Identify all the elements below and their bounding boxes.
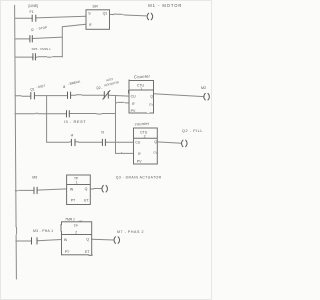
svg-text:M7 - PHAS 2: M7 - PHAS 2 bbox=[117, 230, 144, 234]
svg-text:- BREAK: - BREAK bbox=[67, 79, 81, 86]
svg-text:PT: PT bbox=[65, 250, 70, 254]
svg-text:Q: Q bbox=[85, 187, 88, 191]
svg-text:Counter: Counter bbox=[134, 74, 151, 80]
svg-text:PV: PV bbox=[131, 109, 136, 113]
svg-text:1: 1 bbox=[140, 87, 142, 91]
svg-text:ET: ET bbox=[85, 250, 90, 254]
svg-text:IN: IN bbox=[70, 188, 74, 192]
svg-text:Q: Q bbox=[150, 94, 153, 98]
svg-text:2: 2 bbox=[75, 231, 77, 235]
svg-text:I4: I4 bbox=[71, 133, 74, 137]
svg-text:F1: F1 bbox=[30, 10, 34, 14]
svg-text:Q3 - DRAIN ACTUATOR: Q3 - DRAIN ACTUATOR bbox=[116, 176, 162, 180]
svg-text:R: R bbox=[132, 102, 135, 106]
svg-text:TP: TP bbox=[74, 224, 79, 228]
svg-text:M9: M9 bbox=[32, 176, 37, 180]
svg-text:PV: PV bbox=[137, 159, 142, 163]
svg-text:I2: I2 bbox=[31, 28, 34, 32]
svg-text:M1 - MOTOR: M1 - MOTOR bbox=[148, 3, 182, 8]
svg-text:I4: I4 bbox=[63, 85, 66, 89]
svg-text:M2: M2 bbox=[201, 86, 206, 90]
svg-text:I9: I9 bbox=[101, 130, 104, 134]
svg-text:R: R bbox=[138, 152, 141, 156]
svg-text:M3 - PHA 1: M3 - PHA 1 bbox=[33, 229, 53, 233]
svg-text:R: R bbox=[89, 23, 92, 27]
svg-text:1: 1 bbox=[76, 181, 78, 185]
svg-text:SR: SR bbox=[92, 3, 98, 8]
svg-text:2: 2 bbox=[144, 134, 146, 138]
svg-text:Q: Q bbox=[154, 140, 157, 144]
svg-text:IN: IN bbox=[64, 238, 68, 242]
svg-text:ET: ET bbox=[84, 199, 89, 203]
svg-text:Q2 -: Q2 - bbox=[96, 86, 102, 90]
svg-text:CU: CU bbox=[135, 141, 141, 145]
svg-text:counter: counter bbox=[135, 121, 150, 127]
svg-text:SP3 - OVRL L: SP3 - OVRL L bbox=[32, 47, 52, 51]
svg-text:[LINE]: [LINE] bbox=[29, 4, 39, 8]
svg-text:Q2 - FILL: Q2 - FILL bbox=[182, 129, 203, 133]
svg-text:Q1: Q1 bbox=[30, 87, 34, 91]
svg-text:- MOT: - MOT bbox=[36, 84, 46, 90]
svg-text:I3 - REST: I3 - REST bbox=[64, 119, 87, 124]
svg-text:PT: PT bbox=[71, 199, 76, 203]
svg-text:S: S bbox=[88, 12, 91, 16]
svg-text:Q: Q bbox=[86, 238, 89, 242]
svg-text:Q1: Q1 bbox=[103, 12, 108, 16]
svg-text:- STOP: - STOP bbox=[36, 26, 47, 31]
svg-text:TMR 1: TMR 1 bbox=[65, 218, 75, 222]
svg-text:CU: CU bbox=[131, 95, 137, 99]
